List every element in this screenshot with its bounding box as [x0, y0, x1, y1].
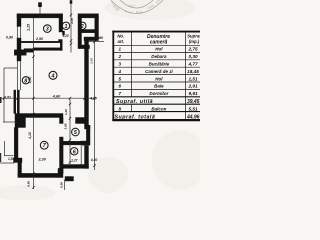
svg-text:1,50: 1,50 [8, 157, 15, 161]
svg-text:3: 3 [46, 27, 49, 33]
svg-text:1,23: 1,23 [62, 34, 68, 38]
svg-text:4,77: 4,77 [187, 62, 198, 67]
svg-text:4,10: 4,10 [28, 132, 32, 140]
svg-text:1,15: 1,15 [27, 23, 31, 31]
svg-text:1,51: 1,51 [188, 76, 198, 81]
svg-text:1,40: 1,40 [64, 109, 68, 115]
svg-text:Debara: Debara [151, 54, 167, 59]
svg-text:2,91: 2,91 [187, 84, 198, 89]
svg-text:4,30: 4,30 [90, 158, 98, 162]
svg-text:Supraf: Supraf [187, 34, 200, 39]
svg-text:Bucătărie: Bucătărie [149, 62, 170, 67]
svg-text:2,05: 2,05 [90, 58, 94, 65]
svg-text:2,05: 2,05 [70, 18, 74, 25]
svg-text:44,96: 44,96 [186, 114, 200, 120]
svg-text:2: 2 [80, 24, 84, 30]
svg-text:4: 4 [51, 73, 55, 79]
svg-text:Dormitor: Dormitor [149, 91, 168, 96]
svg-text:cameră: cameră [150, 39, 168, 45]
svg-text:5,51: 5,51 [188, 106, 198, 111]
svg-text:2,50: 2,50 [35, 37, 43, 41]
svg-text:0,90: 0,90 [59, 182, 63, 188]
svg-text:Supraf. totală: Supraf. totală [115, 114, 156, 120]
svg-text:Cameră de zi: Cameră de zi [145, 69, 174, 74]
svg-text:ta·ne: ta·ne [136, 10, 143, 14]
svg-text:4,90: 4,90 [28, 77, 32, 85]
svg-text:1,82: 1,82 [4, 95, 11, 99]
svg-text:Hol: Hol [155, 47, 163, 52]
svg-text:1,40: 1,40 [59, 147, 63, 153]
svg-text:18,45: 18,45 [187, 69, 199, 74]
svg-text:0,30: 0,30 [188, 54, 198, 59]
svg-text:2,75: 2,75 [187, 47, 198, 52]
svg-text:0,90: 0,90 [6, 36, 13, 40]
svg-text:Hol: Hol [155, 76, 163, 81]
svg-text:4,30: 4,30 [89, 97, 97, 101]
svg-text:⌀90: ⌀90 [97, 36, 103, 40]
svg-text:Baie: Baie [154, 84, 164, 89]
svg-text:0,95: 0,95 [27, 181, 31, 187]
svg-text:art.: art. [117, 39, 124, 44]
svg-text:1,27: 1,27 [71, 159, 78, 163]
svg-text:9,91: 9,91 [188, 91, 198, 96]
svg-text:4,60: 4,60 [52, 95, 61, 99]
svg-text:Supraf. utilă: Supraf. utilă [116, 99, 153, 105]
svg-text:39,45: 39,45 [187, 99, 200, 105]
svg-text:2: 2 [118, 54, 122, 59]
svg-text:n·a·m: n·a·m [128, 5, 136, 8]
svg-text:1,65: 1,65 [64, 123, 68, 129]
svg-text:4: 4 [118, 69, 122, 74]
svg-text:(mp.): (mp.) [189, 39, 200, 44]
svg-text:2,30: 2,30 [38, 157, 47, 161]
svg-text:8: 8 [24, 79, 27, 85]
svg-text:No.: No. [117, 34, 124, 39]
svg-text:1: 1 [65, 24, 68, 30]
svg-text:Balcon: Balcon [151, 106, 166, 111]
